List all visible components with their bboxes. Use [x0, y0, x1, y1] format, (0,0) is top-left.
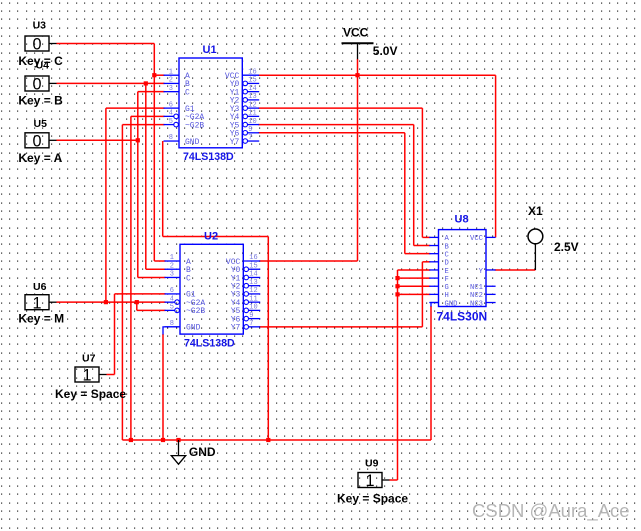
U2 pin ~G2B stub — [165, 309, 175, 311]
U2 pin VCC stub — [243, 260, 260, 262]
junction net KeySpace2 at G row — [395, 284, 399, 288]
U8 pin NC1 stub — [486, 285, 496, 287]
svg-text:U7: U7 — [82, 353, 96, 365]
U1 pin GND stub — [164, 140, 180, 142]
svg-text:X1: X1 — [528, 204, 543, 218]
wire net KeyM: into U2 pin ~G2B — [137, 309, 166, 311]
svg-text:13: 13 — [248, 93, 256, 101]
svg-text:6: 6 — [169, 101, 173, 109]
wire net Y7D: vertical up — [421, 262, 423, 327]
svg-text:7: 7 — [249, 320, 253, 328]
svg-text:U6: U6 — [33, 281, 47, 293]
U8 pin E stub — [429, 269, 438, 271]
wire net Y7D: U2 Y7 horizontal — [259, 326, 422, 328]
wire net GND: U1 GND vertical down — [162, 141, 164, 236]
wire net GND: U8 GND vertical to rail — [430, 306, 432, 440]
U1 pin Y5 stub — [248, 124, 260, 126]
junction net KeyA branch — [136, 138, 140, 142]
svg-text:U4: U4 — [36, 60, 50, 72]
wire net Y5B: vertical down — [413, 125, 415, 246]
svg-text:H: H — [445, 292, 449, 300]
svg-text:1: 1 — [82, 367, 91, 385]
svg-text:5: 5 — [170, 304, 174, 312]
probe X1 — [528, 229, 543, 244]
wire VCC net: U2 pin16 VCC row — [259, 260, 357, 262]
svg-text:1: 1 — [169, 68, 173, 76]
svg-text:1: 1 — [32, 294, 41, 312]
wire net Y3A: U1 Y3 horizontal — [258, 107, 422, 109]
U8 pin H stub — [429, 293, 438, 295]
U2 pin G1 stub — [165, 293, 181, 295]
wire net KeySpace1: into U2 pin G1 — [115, 293, 166, 295]
svg-text:NC2: NC2 — [470, 292, 483, 300]
wire net Y3A: into U8 pin A — [422, 236, 430, 238]
U1 pin Y4 stub — [248, 115, 260, 117]
wire net GND: bottom rail — [122, 439, 431, 441]
wire net Y3A: vertical down — [421, 108, 423, 237]
junction net KeyM at G1 branch — [104, 300, 108, 304]
junction net KeySpace2 at F row — [395, 276, 399, 280]
U2 pin Y5 stub — [249, 309, 261, 311]
wire net Y6C: vertical down — [404, 133, 406, 254]
svg-text:15: 15 — [249, 262, 257, 270]
U2 pin Y1 stub — [249, 276, 261, 278]
U2 pin Y4 stub — [249, 301, 261, 303]
svg-text:4: 4 — [170, 295, 174, 303]
U1 pin ~G2B stub — [164, 124, 174, 126]
svg-text:14: 14 — [248, 85, 256, 93]
svg-text:4: 4 — [169, 110, 173, 118]
svg-text:U1: U1 — [203, 44, 217, 56]
svg-text:U3: U3 — [33, 20, 47, 32]
U8 pin B stub — [429, 245, 438, 247]
wire VCC net vertical from VCC symbol to U2 VCC row — [357, 59, 359, 261]
svg-text:C: C — [445, 251, 450, 259]
wire net GND: ~G2B vertical to rail (rail left end) — [121, 125, 123, 440]
switch U4 terminal stub — [49, 82, 57, 84]
svg-text:13: 13 — [249, 279, 257, 287]
U2 pin C stub — [165, 276, 181, 278]
junction GND rail at ground symbol — [176, 438, 180, 442]
switch U3 terminal stub — [49, 43, 57, 45]
svg-text:U2: U2 — [204, 231, 218, 243]
svg-text:12: 12 — [248, 101, 256, 109]
svg-text:10: 10 — [249, 304, 257, 312]
svg-text:15: 15 — [248, 77, 256, 85]
wire VCC net: vertical down to U8 VCC — [495, 75, 497, 237]
svg-text:U5: U5 — [34, 118, 48, 130]
svg-text:14: 14 — [249, 271, 257, 279]
U2 pin GND stub elbow — [163, 327, 180, 335]
svg-text:VCC: VCC — [343, 26, 369, 40]
wire net KeyA: U5 output horizontal — [57, 139, 138, 141]
svg-text:10: 10 — [248, 118, 256, 126]
switch U9 terminal stub — [382, 479, 390, 481]
wire net Y7D: into U8 pin D — [422, 261, 430, 263]
wire net KeyC: U3 output horizontal — [57, 43, 155, 45]
svg-text:B: B — [445, 243, 450, 251]
U8 pin VCC stub — [486, 236, 496, 238]
wire net KeyB: into U2 pin B — [146, 268, 166, 270]
svg-text:9: 9 — [248, 126, 252, 134]
junction net KeySpace2 at H row — [395, 292, 399, 296]
wire net KeyB: U4 output to U1 pin B — [57, 82, 165, 84]
junction GND rail at x131 — [129, 438, 133, 442]
svg-text:3: 3 — [169, 85, 173, 93]
U1 pin Y7 stub — [248, 140, 260, 142]
IC U1 outline — [179, 58, 242, 148]
U8 pin G stub — [429, 285, 438, 287]
U2 pin ~G2A stub — [165, 301, 175, 303]
switch U4 — [25, 76, 49, 91]
wire net GND: horizontal above U2 — [163, 236, 269, 238]
svg-text:U9: U9 — [365, 458, 379, 470]
svg-text:11: 11 — [249, 295, 257, 303]
junction GND rail at x163 — [161, 438, 165, 442]
switch U9 — [358, 473, 382, 488]
wire net GND: U2 GND vertical to rail — [162, 334, 164, 440]
svg-text:Key = Space: Key = Space — [337, 492, 408, 506]
switch U5 — [25, 133, 49, 148]
svg-text:11: 11 — [248, 110, 256, 118]
switch U3 — [25, 36, 49, 51]
U8 pin NC3 stub — [486, 302, 496, 304]
wire net Y5B: into U8 pin B — [414, 245, 431, 247]
wire net KeySpace1: vertical to U2 G1 row — [114, 294, 116, 375]
wire net Yout: U8 Y output to probe X1 — [495, 269, 536, 271]
U1 pin Y0 stub — [248, 82, 260, 84]
svg-text:CSDN @Aura_Ace: CSDN @Aura_Ace — [472, 500, 630, 522]
svg-text:U8: U8 — [455, 214, 469, 226]
svg-text:Y7: Y7 — [231, 324, 241, 333]
svg-text:3: 3 — [170, 271, 174, 279]
switch U7 terminal stub — [99, 374, 107, 376]
U1 pin Y6 stub — [248, 132, 260, 134]
svg-text:GND: GND — [445, 300, 458, 308]
U1 pin Y1 stub — [248, 91, 260, 93]
wire net GND: U1 ~G2A row — [131, 115, 165, 117]
U1 pin Y2 stub — [248, 99, 260, 101]
junction net KeyC at U1 pin A row — [152, 73, 156, 77]
switch U5 terminal stub — [49, 139, 57, 141]
wire net GND: vertical right of U2 down to rail — [267, 237, 269, 441]
svg-text:Y7: Y7 — [230, 138, 240, 147]
IC U2 outline — [180, 244, 243, 334]
wire net KeyC: vertical to U2 pin A — [153, 44, 155, 262]
wire net KeySpace2: vertical up to U8 E — [397, 270, 399, 480]
svg-text:0: 0 — [32, 36, 41, 54]
wire net Y5B: U1 Y5 horizontal — [258, 124, 414, 126]
U1 pin ~G2A stub — [164, 115, 174, 117]
wire net KeyM: U6 output to U2 ~G2A — [57, 301, 166, 303]
svg-text:7: 7 — [248, 134, 252, 142]
svg-text:0: 0 — [32, 76, 41, 94]
U2 pin Y2 stub — [249, 285, 261, 287]
svg-text:0: 0 — [32, 132, 41, 150]
U8 pin GND stub — [429, 302, 438, 304]
U8 pin NC2 stub — [486, 293, 496, 295]
wire net GND: ~G2A vertical to rail — [130, 116, 132, 440]
svg-text:C: C — [185, 88, 190, 97]
svg-text:74LS138D: 74LS138D — [184, 338, 235, 350]
svg-text:5: 5 — [169, 118, 173, 126]
svg-text:~G2B: ~G2B — [185, 121, 204, 130]
U8 pin Y stub — [486, 269, 496, 271]
U1 pin G1 stub — [164, 107, 180, 109]
svg-text:GND: GND — [186, 324, 201, 333]
svg-text:GND: GND — [189, 445, 216, 459]
U1 pin VCC stub — [242, 74, 259, 76]
wire net KeySpace2: into U8 pin F — [398, 277, 431, 279]
svg-text:16: 16 — [248, 68, 256, 76]
wire VCC net: U1 pin16 VCC to right vertical — [258, 74, 495, 76]
switch U7 — [75, 367, 99, 382]
U8 pin F stub — [429, 277, 438, 279]
svg-text:5.0V: 5.0V — [373, 44, 398, 58]
svg-text:6: 6 — [170, 287, 174, 295]
wire net KeyM: jog down to U2 ~G2B row — [136, 302, 138, 310]
power VCC symbol — [342, 42, 374, 44]
svg-text:G: G — [445, 284, 449, 292]
U1 pin A stub — [164, 74, 180, 76]
U2 pin Y0 stub — [249, 268, 261, 270]
wire net KeySpace2: into U8 pin E — [398, 269, 431, 271]
U1 pin B stub — [164, 82, 180, 84]
U8 pin A stub — [429, 236, 438, 238]
svg-text:Key = B: Key = B — [18, 94, 63, 108]
svg-text:F: F — [445, 276, 449, 284]
wire net KeyB: vertical to U2 pin B — [145, 83, 147, 269]
switch U6 — [25, 295, 49, 310]
U1 pin Y3 stub — [248, 107, 260, 109]
U2 pin Y7 stub — [249, 326, 261, 328]
svg-text:2: 2 — [170, 262, 174, 270]
svg-text:Key = A: Key = A — [18, 151, 62, 165]
U8 pin GND stub elbow — [431, 303, 439, 307]
wire net KeyM: vertical up to U1 G1 — [105, 108, 107, 302]
U8 pin C stub — [429, 253, 438, 255]
ground symbol — [178, 440, 180, 456]
U2 pin B stub — [165, 268, 181, 270]
svg-text:GND: GND — [185, 138, 200, 147]
svg-text:74LS138D: 74LS138D — [183, 151, 234, 163]
junction VCC net at U1 VCC row — [355, 73, 359, 77]
svg-text:NC1: NC1 — [470, 284, 483, 292]
svg-text:A: A — [445, 235, 450, 243]
svg-text:9: 9 — [249, 312, 253, 320]
wire net Y6C: U1 Y6 horizontal — [258, 132, 405, 134]
svg-text:C: C — [186, 274, 191, 283]
svg-text:Y: Y — [479, 268, 484, 276]
svg-text:E: E — [445, 268, 449, 276]
wire net KeyA: vertical U1.C to U2.C — [137, 92, 139, 278]
svg-text:8: 8 — [169, 134, 173, 142]
wire net KeyC: branch to U1 pin A — [154, 74, 164, 76]
wire net KeySpace2: U9 output — [390, 479, 398, 481]
svg-text:Key = Space: Key = Space — [55, 387, 126, 401]
svg-text:D: D — [445, 260, 449, 268]
wire net KeyM: into U1 pin G1 — [106, 107, 165, 109]
junction net KeyM at ~G2B branch — [135, 300, 139, 304]
IC U8 outline — [439, 230, 487, 307]
wire net KeySpace1: U7 output — [107, 374, 115, 376]
svg-text:2.5V: 2.5V — [554, 240, 579, 254]
svg-text:16: 16 — [249, 254, 257, 262]
U2 pin Y3 stub — [249, 293, 261, 295]
svg-text:NC3: NC3 — [470, 300, 483, 308]
wire net KeyA: into U1 pin C — [138, 91, 165, 93]
svg-text:VCC: VCC — [470, 235, 484, 243]
junction GND rail at x268 — [266, 438, 270, 442]
wire net KeySpace2: into U8 pin H — [398, 293, 431, 295]
U1 pin C stub — [164, 91, 180, 93]
svg-text:~G2B: ~G2B — [186, 307, 205, 316]
U8 pin D stub — [429, 261, 438, 263]
junction net KeyB branch — [144, 81, 148, 85]
wire net KeyC: into U2 pin A — [154, 260, 165, 262]
wire net KeyA: into U2 pin C — [138, 276, 166, 278]
wire net KeySpace2: into U8 pin G — [398, 285, 431, 287]
U2 pin Y6 stub — [249, 318, 261, 320]
svg-text:1: 1 — [170, 254, 174, 262]
svg-text:2: 2 — [169, 77, 173, 85]
wire net GND: U1 ~G2B row — [122, 124, 164, 126]
svg-text:1: 1 — [365, 472, 374, 490]
svg-text:Key = M: Key = M — [18, 312, 64, 326]
U2 pin A stub — [165, 260, 181, 262]
switch U6 terminal stub — [49, 301, 57, 303]
wire net Y6C: into U8 pin C — [405, 253, 431, 255]
U2 pin GND stub — [165, 326, 181, 328]
svg-text:74LS30N: 74LS30N — [437, 310, 488, 324]
svg-text:12: 12 — [249, 287, 257, 295]
